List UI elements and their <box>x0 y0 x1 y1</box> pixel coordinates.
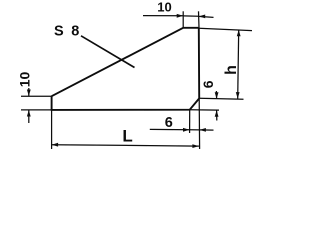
arrowhead top 10 right (points left) <box>199 15 206 19</box>
arrowhead top 10 left (points right) <box>177 14 184 18</box>
extension line h top (tilted) <box>199 28 252 30</box>
svg-text:h: h <box>223 65 240 75</box>
dimension line 10 left, bottom tail with arrow (points up) <box>28 110 30 123</box>
arrowhead L left (points left) <box>52 143 59 147</box>
extension line L left (x=51.6) <box>51 110 53 149</box>
arrowhead h bottom (points down) <box>236 92 240 99</box>
dimension line 6 right, top tail with arrow (points down) <box>215 91 217 99</box>
extension line right edge extended (x=199) from top to L dimension <box>199 11 200 149</box>
arrowhead 10 left top (points down) <box>27 90 31 97</box>
extension line chamfer top / h bottom <box>199 97 243 100</box>
extension line 10 left bottom <box>21 109 52 111</box>
plate outline <box>52 28 200 110</box>
arrowhead 6 bottom right (points left) <box>199 128 206 132</box>
dimension line h <box>238 30 239 99</box>
svg-text:L: L <box>122 126 132 145</box>
dimension line 10 top, left tail with arrow <box>143 15 183 17</box>
arrowhead 10 left bottom (points up) <box>27 110 31 117</box>
arrowhead L right (points right) <box>192 144 199 148</box>
dimension line 6 bottom, middle segment <box>190 129 200 131</box>
dimension line L <box>52 145 199 146</box>
dimension line 6 right, bottom tail with arrow (points up) <box>216 110 218 120</box>
svg-text:S 8: S 8 <box>54 23 81 39</box>
svg-text:6: 6 <box>200 80 216 88</box>
arrowhead 6 bottom left (points right) <box>183 128 190 132</box>
arrowhead 6 right top (points down) <box>215 92 219 99</box>
dimension line 10 left, top tail with arrow (points down) <box>28 88 30 96</box>
svg-text:10: 10 <box>17 72 33 88</box>
dimension line 10 top, right tail with arrow <box>199 16 214 17</box>
svg-text:10: 10 <box>157 0 171 14</box>
dimension line 10 top, middle segment <box>183 15 199 17</box>
extension line bottom edge extended right <box>190 109 219 111</box>
arrowhead h top (points up) <box>237 30 241 37</box>
svg-text:6: 6 <box>165 115 173 131</box>
arrowhead 6 right bottom (points up) <box>215 110 219 117</box>
extension line left of top corner (x=183) <box>182 11 184 28</box>
extension line chamfer bottom (x=189.7) <box>189 110 191 133</box>
leader line for S 8 <box>81 36 135 68</box>
dimension line 6 bottom, right tail with arrow (points left) <box>199 129 213 131</box>
dimension line 6 bottom, left tail with arrow (points right) <box>150 128 190 130</box>
extension line 10 left top <box>21 95 52 97</box>
